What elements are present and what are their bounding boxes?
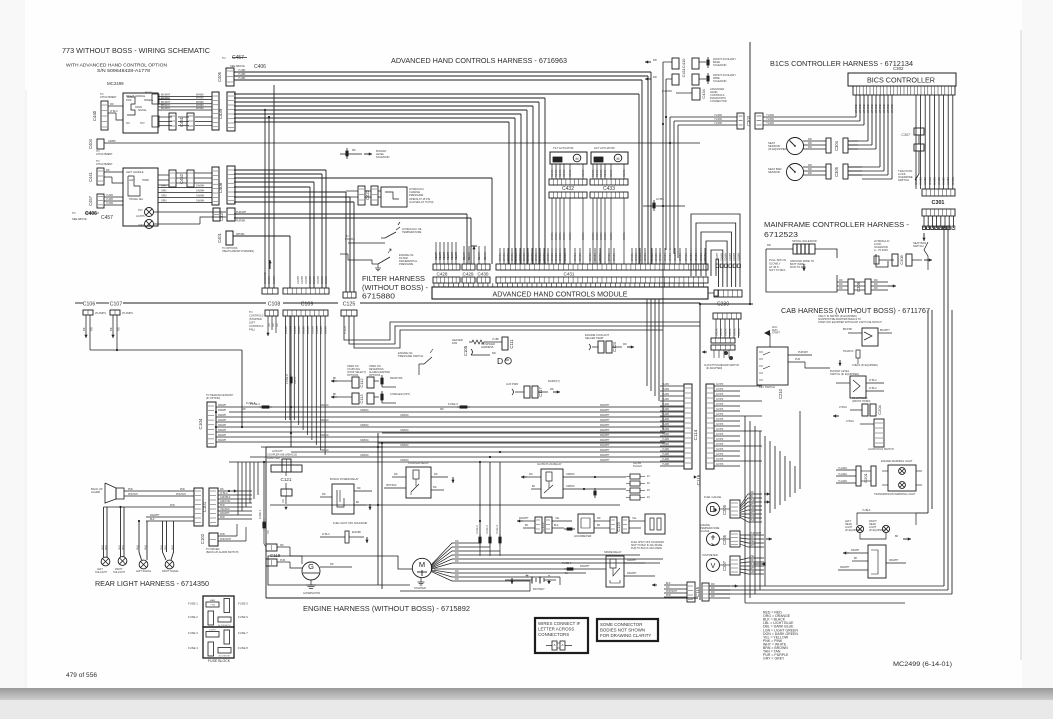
svg-text:YL/RD: YL/RD	[662, 403, 669, 406]
svg-text:TRAFFIC: TRAFFIC	[843, 350, 854, 353]
svg-text:PNK: PNK	[161, 545, 164, 550]
C433 lower strip	[590, 192, 628, 198]
svg-text:RD: RD	[666, 586, 670, 589]
svg-text:RD: RD	[434, 473, 438, 476]
svg-text:RD/WH: RD/WH	[447, 252, 450, 260]
cab bottom connector	[702, 583, 709, 601]
svg-text:YL/RD: YL/RD	[106, 194, 113, 197]
svg-text:(FRONT HORN): (FRONT HORN)	[852, 400, 870, 403]
svg-text:WH/BK: WH/BK	[669, 253, 672, 261]
C301 wires down to mainframe	[923, 226, 926, 230]
svg-text:RD: RD	[839, 283, 843, 286]
C118 wires	[277, 546, 290, 548]
svg-text:C457: C457	[232, 55, 244, 61]
svg-text:GY/PK: GY/PK	[716, 428, 724, 431]
svg-text:WH/RD: WH/RD	[882, 104, 886, 113]
spark relay wires	[624, 562, 645, 564]
svg-text:YL/RD: YL/RD	[106, 202, 113, 205]
svg-text:FUSE 1: FUSE 1	[188, 602, 198, 606]
svg-text:BK: BK	[356, 501, 360, 504]
svg-text:LT.BLU: LT.BLU	[322, 533, 330, 536]
svg-text:GY/PK: GY/PK	[716, 408, 724, 411]
svg-text:RD/WH: RD/WH	[218, 434, 226, 437]
svg-text:SOLENOID: SOLENOID	[376, 155, 390, 159]
svg-text:RD/WHT: RD/WHT	[889, 559, 899, 562]
connector C457	[97, 194, 104, 208]
svg-text:FUSE 3: FUSE 3	[448, 402, 458, 406]
C125 wires loop right	[344, 316, 700, 340]
svg-text:LEFT: LEFT	[249, 321, 256, 325]
svg-text:RD BK: RD BK	[582, 169, 585, 177]
svg-text:RD/WH: RD/WH	[451, 252, 454, 260]
svg-text:LEFT: LEFT	[138, 224, 144, 227]
svg-text:WH/BK: WH/BK	[659, 253, 662, 261]
svg-text:+: +	[525, 574, 529, 580]
connector C301 lower strip	[922, 209, 955, 216]
rear bulbs	[101, 557, 110, 566]
svg-text:OPTIONS: OPTIONS	[369, 374, 381, 377]
svg-text:LETTER ACROSS: LETTER ACROSS	[538, 627, 574, 632]
svg-text:BLK: BLK	[666, 582, 671, 585]
svg-text:(STARTER: (STARTER	[249, 317, 262, 321]
svg-text:RD/WHT: RD/WHT	[600, 404, 610, 407]
svg-text:RD: RD	[653, 75, 657, 79]
hourmeter	[578, 514, 594, 533]
connector C309	[914, 144, 924, 151]
svg-text:GN/WH: GN/WH	[196, 190, 205, 193]
svg-text:GN/WH: GN/WH	[301, 275, 304, 284]
C106 junction down to bus	[241, 350, 243, 427]
svg-text:CHECK (IF EQUIPPED): CHECK (IF EQUIPPED)	[852, 364, 878, 367]
svg-text:RD: RD	[263, 272, 267, 276]
svg-text:RD/WH: RD/WH	[733, 253, 736, 261]
svg-text:RD/YL: RD/YL	[294, 376, 297, 384]
svg-text:RD/WH: RD/WH	[218, 424, 226, 427]
connector C305 pair	[826, 164, 831, 179]
svg-text:RD: RD	[808, 167, 812, 171]
svg-text:GRN: GRN	[161, 190, 167, 193]
svg-text:FUEL SHUT OFF SOLENOID: FUEL SHUT OFF SOLENOID	[333, 521, 367, 525]
svg-text:WH/BK: WH/BK	[579, 253, 582, 261]
C406 wires long right	[234, 71, 651, 73]
section divider vertical right	[749, 42, 751, 304]
connector C437 pair	[213, 208, 220, 221]
svg-text:LEFT: LEFT	[129, 179, 135, 182]
svg-text:RD: RD	[455, 574, 459, 577]
note box some connector	[597, 619, 658, 641]
svg-text:GY/PK: GY/PK	[716, 388, 724, 391]
fuse 3 on bus	[440, 359, 560, 361]
svg-text:C114: C114	[693, 429, 698, 440]
svg-text:PUR TO BLK IF ADJ MADE: PUR TO BLK IF ADJ MADE	[631, 547, 662, 550]
svg-text:WH/BK: WH/BK	[664, 253, 667, 261]
svg-text:OPTIONS: OPTIONS	[347, 374, 359, 377]
svg-text:TO: TO	[222, 56, 226, 60]
svg-text:RIGHT SIGNAL: RIGHT SIGNAL	[162, 570, 179, 573]
diff pressure switch symbol	[378, 257, 390, 264]
svg-text:WH/BK: WH/BK	[574, 253, 577, 261]
svg-text:WH/RD: WH/RD	[858, 104, 862, 113]
engine bus horizontals	[382, 432, 665, 434]
C121 lower connector	[281, 489, 292, 496]
svg-text:RD BK: RD BK	[592, 169, 595, 177]
svg-text:WITH ADVANCED HAND CONTROL OPT: WITH ADVANCED HAND CONTROL OPTION	[66, 63, 167, 68]
svg-text:FRONT: FRONT	[145, 92, 153, 94]
svg-text:C457: C457	[88, 195, 93, 206]
svg-text:C108: C108	[268, 302, 281, 308]
tilt actuator box C432	[550, 152, 587, 164]
svg-text:WH/BK: WH/BK	[644, 253, 647, 261]
C122 wires	[517, 520, 523, 522]
section border horizontal	[75, 302, 83, 304]
C122 connector pair	[535, 517, 542, 533]
fuse 7	[564, 568, 576, 570]
arrow right C306	[888, 285, 896, 287]
C101 right bends up	[257, 462, 259, 495]
svg-text:GY/PK: GY/PK	[716, 403, 724, 406]
svg-text:ALARM: ALARM	[91, 490, 100, 494]
svg-text:(IF EQUIPPED): (IF EQUIPPED)	[869, 529, 886, 532]
battery ground	[548, 580, 550, 584]
fuel shutoff solenoid box	[645, 514, 665, 534]
svg-text:RD/WH: RD/WH	[439, 252, 442, 260]
svg-text:WH/RD: WH/RD	[886, 104, 890, 113]
C206 wire fan	[740, 534, 764, 536]
svg-text:RD BK: RD BK	[569, 169, 572, 177]
svg-text:YL/GN: YL/GN	[344, 326, 347, 334]
engine main vertical wires	[377, 433, 379, 585]
fuse 4 horizontal	[259, 406, 272, 408]
svg-text:BK: BK	[597, 524, 601, 527]
C431 pin stub drops	[499, 248, 501, 264]
cab long wire verticals right	[927, 310, 929, 513]
svg-text:START: START	[772, 332, 780, 335]
C106 C107 joined wire	[90, 349, 242, 351]
svg-text:RD: RD	[839, 287, 843, 290]
center verticals below module	[646, 299, 648, 386]
svg-text:RD: RD	[455, 552, 459, 555]
svg-text:PUR/WH: PUR/WH	[798, 351, 808, 354]
note box connector glyphs	[552, 641, 557, 650]
wires handle to C451	[158, 98, 170, 100]
glow plug relay box	[541, 469, 563, 498]
svg-text:GN/BK: GN/BK	[923, 177, 927, 185]
svg-text:BK: BK	[82, 327, 86, 331]
svg-text:C432: C432	[562, 186, 574, 192]
svg-text:C439: C439	[218, 108, 223, 119]
connector C408 pair	[212, 167, 219, 205]
svg-text:RD/WHT: RD/WHT	[600, 409, 610, 412]
svg-text:GRY = GREY: GRY = GREY	[763, 657, 785, 661]
svg-text:OR/BLK: OR/BLK	[320, 419, 329, 422]
svg-text:D: D	[497, 356, 503, 366]
svg-text:RD/WH: RD/WH	[435, 252, 438, 260]
cab fuse small	[856, 350, 860, 358]
C437 wires	[234, 213, 467, 215]
connector C306 pair	[848, 279, 854, 294]
svg-text:RD: RD	[440, 408, 444, 411]
svg-text:PUR/BK: PUR/BK	[236, 220, 246, 223]
connector C406 top	[226, 68, 234, 86]
cab bottom bus lines	[709, 585, 944, 587]
svg-text:RD/WHT: RD/WHT	[600, 424, 610, 427]
svg-text:YL/RD: YL/RD	[662, 438, 669, 441]
filter strip B	[283, 288, 329, 294]
connector C440	[101, 101, 108, 130]
cab right verticals lower	[943, 226, 945, 586]
svg-text:YL/RD: YL/RD	[662, 448, 669, 451]
svg-text:C440: C440	[92, 110, 97, 121]
svg-text:SEE ABOVE: SEE ABOVE	[72, 217, 87, 221]
svg-text:RD BK: RD BK	[623, 169, 626, 177]
thermo switch center	[424, 357, 432, 364]
svg-text:YL/RD: YL/RD	[714, 113, 722, 117]
connector C301 strip	[922, 189, 955, 196]
lift actuator box C433	[591, 152, 628, 164]
svg-text:RD: RD	[529, 473, 533, 476]
svg-text:C429: C429	[463, 272, 474, 277]
svg-text:SELLER TEMP: SELLER TEMP	[585, 336, 604, 340]
svg-text:BK: BK	[895, 535, 899, 538]
svg-text:C457: C457	[101, 215, 113, 221]
arrow row C114	[696, 476, 698, 478]
connector C451 pair	[169, 113, 176, 130]
svg-text:OR/BK: OR/BK	[725, 328, 728, 336]
svg-text:OR/BK: OR/BK	[734, 328, 737, 336]
svg-text:YL/RD: YL/RD	[662, 453, 669, 456]
svg-text:G: G	[308, 562, 314, 571]
svg-text:FWD: FWD	[126, 99, 132, 102]
svg-text:PUR: PUR	[750, 519, 755, 522]
svg-text:WH/BK: WH/BK	[608, 253, 611, 261]
svg-text:ENGINE: ENGINE	[345, 237, 355, 241]
C201 wires left	[836, 469, 856, 471]
svg-text:GN/WH: GN/WH	[305, 275, 308, 284]
svg-text:OR/BLK: OR/BLK	[360, 439, 369, 442]
svg-text:YL/RD: YL/RD	[662, 428, 669, 431]
svg-text:PUR: PUR	[750, 499, 755, 502]
section border vertical center	[699, 303, 701, 600]
svg-text:RD/WHT: RD/WHT	[627, 572, 637, 575]
svg-text:RD: RD	[282, 499, 285, 503]
svg-text:C452: C452	[179, 173, 184, 184]
svg-text:C204: C204	[877, 404, 882, 414]
svg-text:25 AMPS: 25 AMPS	[122, 311, 133, 315]
svg-text:RD: RD	[455, 556, 459, 559]
svg-text:SOLENOID: SOLENOID	[713, 63, 727, 67]
C303 wire drops center	[669, 117, 671, 250]
svg-text:GY/PK: GY/PK	[716, 383, 724, 386]
svg-text:C206: C206	[722, 534, 727, 545]
svg-text:RD: RD	[352, 149, 356, 152]
svg-text:OR/BLK: OR/BLK	[320, 404, 329, 407]
svg-text:YL/RD: YL/RD	[662, 433, 669, 436]
gauge1 wires	[803, 140, 826, 142]
filter wires left	[348, 254, 372, 264]
speaker wires	[124, 490, 194, 492]
left handle box	[123, 168, 158, 226]
svg-text:RD/WH: RD/WH	[218, 439, 226, 442]
svg-text:GN/BK: GN/BK	[942, 177, 946, 185]
svg-text:GN/WH: GN/WH	[321, 275, 324, 284]
svg-text:RD: RD	[808, 145, 812, 149]
traction lock override switch	[915, 168, 919, 180]
svg-text:RD/WH: RD/WH	[218, 414, 226, 417]
svg-text:C301: C301	[932, 200, 945, 206]
pressure switch box	[381, 187, 407, 207]
connector C230 strip top	[714, 290, 742, 297]
svg-text:PNK: PNK	[220, 533, 225, 536]
C408 lower rows to C125 top strip	[234, 191, 346, 193]
svg-text:RD/WH: RD/WH	[218, 419, 226, 422]
svg-text:AUX PWR: AUX PWR	[506, 382, 518, 386]
fuse block box upper	[203, 596, 234, 627]
wires C408 right bulbs	[153, 211, 226, 213]
connector C431 strip	[496, 264, 708, 270]
svg-text:YL/RD: YL/RD	[238, 77, 246, 80]
svg-text:C116: C116	[696, 474, 701, 485]
svg-text:C404: C404	[88, 138, 93, 149]
svg-text:6715880: 6715880	[362, 292, 395, 301]
BICS right wire bundle	[915, 95, 917, 189]
svg-text:OR/BK: OR/BK	[604, 232, 607, 240]
svg-text:OR/BLK: OR/BLK	[320, 434, 329, 437]
glow plug switch connector	[874, 419, 884, 447]
svg-text:ADVANCED HAND CONTROLS HARNESS: ADVANCED HAND CONTROLS HARNESS - 6716963	[391, 56, 567, 65]
svg-text:GN/WH: GN/WH	[196, 200, 205, 203]
svg-text:5A: 5A	[565, 572, 568, 575]
svg-text:WH/BK: WH/BK	[589, 253, 592, 261]
filter strip A	[262, 288, 278, 294]
svg-text:ATTACHMENT: ATTACHMENT	[96, 163, 113, 166]
connector C101 pair	[194, 488, 203, 526]
svg-text:WH/BK: WH/BK	[511, 253, 514, 261]
svg-text:RD: RD	[750, 536, 754, 539]
svg-text:WH/RD: WH/RD	[866, 104, 870, 113]
svg-text:C125: C125	[343, 302, 356, 308]
svg-text:C113: C113	[359, 394, 364, 404]
svg-text:OR/BLK: OR/BLK	[400, 429, 409, 432]
svg-text:C406: C406	[85, 211, 97, 217]
svg-text:LT.BLU: LT.BLU	[869, 387, 877, 390]
C101 left lower wires	[167, 506, 194, 508]
svg-text:ADAPTER): ADAPTER)	[267, 456, 280, 460]
svg-text:OR/BK: OR/BK	[592, 232, 595, 240]
svg-text:BATTERY: BATTERY	[533, 587, 545, 591]
BICS left bundle horizontal joins	[848, 140, 868, 142]
fuse diag	[592, 492, 598, 498]
svg-text:RD/WHT: RD/WHT	[600, 419, 610, 422]
svg-text:STARTER: STARTER	[414, 586, 426, 590]
svg-text:SWITCH (IF EQUIPPED): SWITCH (IF EQUIPPED)	[830, 372, 859, 376]
svg-text:RD/WH: RD/WH	[218, 409, 226, 412]
section border horizontal right	[700, 303, 753, 305]
svg-text:GY/PK: GY/PK	[716, 438, 724, 441]
engine harness top edge	[266, 446, 383, 448]
svg-text:A: A	[553, 643, 555, 647]
svg-text:(CLOSES AT 70 PSI): (CLOSES AT 70 PSI)	[409, 200, 434, 204]
svg-text:FUSE 3: FUSE 3	[486, 525, 489, 534]
svg-text:TEMPERATURE: TEMPERATURE	[402, 230, 422, 234]
svg-text:OR/BLK: OR/BLK	[566, 473, 575, 476]
cab strip wires down	[715, 319, 717, 338]
svg-text:OR/BLK: OR/BLK	[400, 459, 409, 462]
svg-text:SENSOR: SENSOR	[768, 170, 780, 174]
svg-text:C431: C431	[564, 272, 575, 277]
starter motor M	[412, 558, 431, 577]
svg-text:PNK/WHT: PNK/WHT	[666, 590, 678, 593]
connector C107 strip	[110, 310, 120, 315]
svg-text:GAUGE: GAUGE	[700, 529, 710, 533]
svg-text:WH/BK: WH/BK	[655, 253, 658, 261]
connector C303 pair	[737, 113, 744, 129]
svg-text:GN/BK: GN/BK	[951, 177, 955, 185]
ground arrow left of battery	[511, 578, 513, 584]
svg-text:RD/WH: RD/WH	[484, 252, 487, 260]
svg-text:RD/WH BK: RD/WH BK	[390, 377, 403, 380]
C432 wire drops	[551, 164, 553, 179]
svg-text:RD: RD	[433, 486, 437, 489]
BICS left wire bundle	[855, 95, 857, 117]
svg-text:YL/RD: YL/RD	[662, 383, 669, 386]
svg-text:PLUGS: PLUGS	[633, 464, 642, 468]
svg-text:GN/WH: GN/WH	[317, 275, 320, 284]
svg-text:WH/BK: WH/BK	[685, 253, 688, 261]
svg-text:C411C410: C411C410	[681, 58, 686, 78]
fuse junction center	[643, 205, 685, 207]
svg-text:WH/BK: WH/BK	[503, 253, 506, 261]
svg-text:GN/WH: GN/WH	[196, 195, 205, 198]
svg-text:FUSE 3: FUSE 3	[188, 631, 198, 635]
svg-text:GRN: GRN	[161, 185, 167, 188]
svg-text:GN/WH: GN/WH	[297, 275, 300, 284]
svg-text:RD: RD	[272, 323, 275, 327]
svg-text:FUSE BLOCK: FUSE BLOCK	[208, 659, 231, 663]
svg-text:LT.BLU: LT.BLU	[839, 406, 847, 409]
bucket level wire	[340, 153, 362, 155]
svg-text:RD: RD	[711, 595, 715, 598]
BICS controller pin strip	[853, 86, 955, 95]
svg-text:RD: RD	[455, 544, 459, 547]
C411 wires to left verticals	[663, 61, 672, 63]
svg-text:GY/BK: GY/BK	[656, 197, 664, 201]
svg-text:C433: C433	[603, 186, 615, 192]
svg-text:PUR/RD: PUR/RD	[662, 89, 672, 93]
svg-text:YL/GRN: YL/GRN	[838, 467, 847, 470]
svg-text:PNK: PNK	[105, 545, 108, 550]
svg-text:C434: C434	[701, 88, 706, 98]
svg-text:RD: RD	[280, 544, 284, 547]
fuse block fuses lower	[206, 632, 219, 638]
svg-text:RD/WH: RD/WH	[725, 253, 728, 261]
C401 wire	[233, 235, 290, 237]
svg-text:C106: C106	[83, 302, 96, 308]
svg-text:GN/WH: GN/WH	[313, 275, 316, 284]
C230 pin squares	[716, 264, 719, 268]
svg-text:C430: C430	[478, 272, 489, 277]
svg-text:GN/WH: GN/WH	[325, 275, 328, 284]
svg-text:RD: RD	[550, 388, 554, 391]
svg-text:PUR: PUR	[280, 559, 285, 562]
svg-text:FUSE 5: FUSE 5	[238, 602, 248, 606]
svg-text:GY/PK: GY/PK	[716, 413, 724, 416]
svg-text:OR/BK: OR/BK	[551, 232, 554, 240]
note box wires connect	[535, 618, 588, 653]
svg-text:C105: C105	[463, 345, 468, 356]
svg-text:GY/PK: GY/PK	[716, 433, 724, 436]
connector C439 pair	[212, 92, 219, 130]
svg-text:RD/WHT: RD/WHT	[627, 559, 637, 562]
